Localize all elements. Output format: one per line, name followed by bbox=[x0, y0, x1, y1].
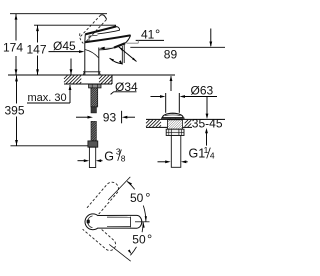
svg-text:147: 147 bbox=[27, 42, 47, 56]
svg-text:50: 50 bbox=[130, 191, 144, 205]
extension line closed lever height bbox=[34, 24, 116, 26]
extension line top (raised lever height) bbox=[10, 13, 107, 15]
dimension 147 vertical line bbox=[37, 25, 39, 42]
svg-text:°: ° bbox=[147, 232, 152, 247]
dimension 395 vertical line bbox=[16, 76, 18, 104]
handle centerline right bbox=[135, 221, 150, 223]
svg-text:max. 30: max. 30 bbox=[28, 92, 67, 104]
extension line hose end level bbox=[11, 145, 89, 147]
valve threaded section bbox=[168, 120, 183, 129]
svg-text:93: 93 bbox=[103, 110, 117, 124]
svg-text:8: 8 bbox=[121, 153, 126, 163]
label 41° underline bbox=[136, 39, 164, 41]
raised lever dashed rear bbox=[80, 33, 84, 43]
valve cap flange bbox=[161, 117, 185, 119]
valve counter slab bbox=[146, 118, 225, 120]
svg-text:1: 1 bbox=[204, 145, 209, 155]
threaded shank bbox=[91, 88, 98, 107]
valve counter hatching right bbox=[185, 120, 188, 123]
valve counter hatching left bbox=[146, 120, 149, 123]
dimension Ø63 line bbox=[151, 96, 162, 98]
dimension G3/8 arrows bbox=[78, 160, 85, 162]
swivel ray +50 upper bbox=[108, 177, 130, 200]
svg-text:41: 41 bbox=[141, 28, 155, 42]
svg-text:35-45: 35-45 bbox=[192, 117, 223, 131]
handle top view solid: pivot cap bbox=[85, 214, 101, 230]
dimension max.30 upper arrow bbox=[70, 59, 72, 75]
mounting nut under counter bbox=[89, 84, 101, 88]
counter hatching left bbox=[64, 76, 67, 79]
dimension Ø34 leader bbox=[114, 91, 137, 93]
svg-text:°: ° bbox=[145, 190, 150, 205]
body-spout crease arc bbox=[85, 50, 98, 58]
faucet body right edge bbox=[98, 48, 100, 76]
handle top view solid: grip bbox=[98, 215, 142, 228]
svg-text:395: 395 bbox=[5, 104, 25, 118]
spout underside and aerator bbox=[125, 35, 131, 43]
dimension Ø45 right arrow bbox=[103, 47, 114, 49]
lever tip bbox=[98, 26, 120, 34]
counter slab bbox=[64, 83, 112, 85]
dimension Ø45 leader bbox=[49, 51, 81, 53]
dimension 35-45 lower arrow bbox=[206, 132, 208, 145]
dimension 89 lower arrow bbox=[170, 76, 172, 91]
svg-text:Ø63: Ø63 bbox=[191, 84, 214, 98]
aerator angle line bbox=[119, 47, 137, 62]
swivel ray -50 lower bbox=[109, 244, 130, 261]
raised lever dashed side 2 bbox=[86, 20, 106, 42]
valve cap dome bbox=[162, 113, 183, 118]
connection pipe G3/8 bbox=[89, 147, 95, 167]
water stream line bbox=[121, 46, 123, 65]
counter hatching right bbox=[99, 76, 102, 79]
hose end nut bbox=[88, 141, 98, 147]
lever rear edge bbox=[84, 34, 87, 42]
handle swivel dashed outline upper bbox=[83, 182, 119, 250]
raised lever dashed side 1 bbox=[81, 15, 101, 37]
flexible hose upper bbox=[91, 107, 96, 113]
raised lever tip arc bbox=[101, 15, 107, 20]
svg-text:50: 50 bbox=[132, 233, 146, 247]
handle pivot slot bbox=[87, 220, 90, 224]
dimension G1 1/4 arrows bbox=[158, 161, 167, 163]
valve stem ticks bbox=[169, 119, 171, 127]
handle inner lines bbox=[130, 217, 132, 228]
cartridge collar lines bbox=[88, 36, 90, 42]
faucet body left edge bbox=[84, 42, 86, 75]
dimension 93 left arrow bbox=[76, 116, 88, 118]
aerator angle arc bbox=[110, 58, 123, 64]
handle swivel dashed outline lower bbox=[83, 227, 116, 251]
swivel arc lower bbox=[142, 222, 143, 232]
svg-text:89: 89 bbox=[164, 48, 178, 62]
svg-text:Ø34: Ø34 bbox=[115, 80, 138, 94]
svg-text:4: 4 bbox=[210, 150, 215, 160]
dimension 174 vertical line bbox=[15, 14, 17, 41]
faucet body base flare bbox=[83, 72, 101, 75]
swivel arc upper bbox=[143, 206, 146, 222]
dimension 93 right tick bbox=[121, 111, 123, 124]
41° leader elbow bbox=[137, 40, 139, 43]
svg-text:°: ° bbox=[155, 27, 160, 42]
valve tailpipe G1 1/4 bbox=[171, 136, 181, 168]
svg-text:174: 174 bbox=[3, 40, 23, 54]
dimension max.30 lower leader bbox=[27, 102, 70, 104]
extension line counter top level bbox=[8, 74, 175, 76]
dimension 35-45 upper arrow bbox=[206, 97, 208, 115]
lever closed top edge bbox=[85, 26, 116, 34]
valve nut bbox=[166, 129, 184, 135]
dimension Ø63 extension lines bbox=[165, 93, 167, 113]
flexible hose lower bbox=[91, 121, 96, 140]
svg-text:Ø45: Ø45 bbox=[53, 39, 76, 53]
extension line spout outlet level (89) bbox=[130, 46, 225, 48]
svg-text:G: G bbox=[104, 150, 114, 164]
spout top edge bbox=[85, 35, 131, 42]
dimension 89 upper arrow bbox=[210, 29, 212, 47]
handle cap inner arc bbox=[88, 216, 93, 228]
